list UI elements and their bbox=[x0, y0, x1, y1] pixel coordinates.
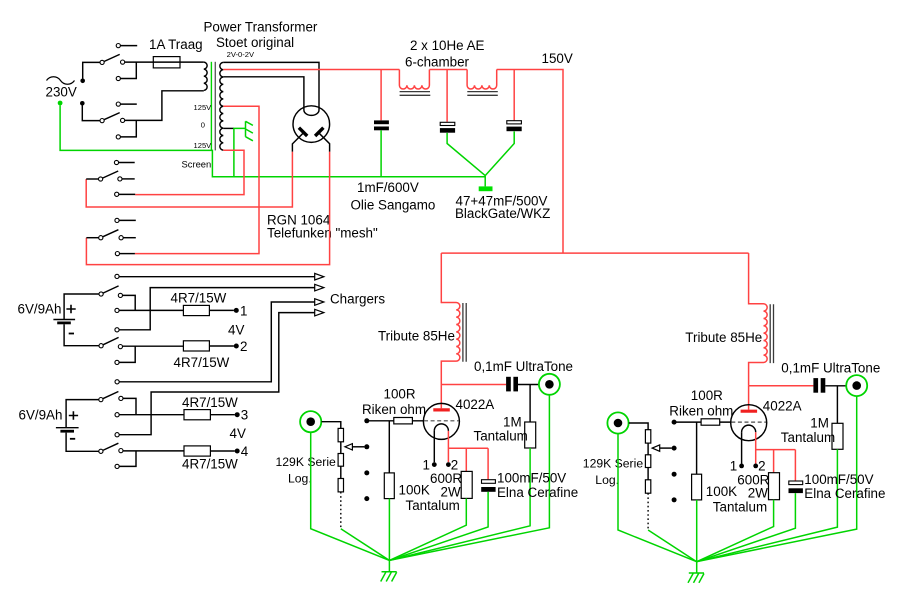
battery BT1 plus sign bbox=[66, 305, 75, 314]
choke L1 (2 x 10He AE) winding bbox=[399, 70, 429, 90]
wire: R2 to output dot 2 bbox=[209, 345, 234, 347]
capacitor C4 100mF/50V plates (electrolytic) bbox=[482, 480, 496, 484]
switch S3 throw top circle bbox=[114, 160, 118, 164]
switch S6a throw lower circle bbox=[115, 413, 119, 417]
wire: 150V rail split to both channels (red) bbox=[441, 252, 748, 254]
wire: green from C2a to star point bbox=[447, 133, 485, 176]
wire: black drop to grid-leak resistor 1M bbox=[529, 385, 531, 423]
wire: green star point drop bbox=[484, 176, 486, 187]
charger arrow 1 bbox=[315, 273, 324, 280]
wire: S3 mid throw stub bbox=[122, 178, 135, 180]
capacitor C2a 47mF plates (electrolytic) bbox=[440, 122, 455, 125]
svg-text:100mF/50V: 100mF/50V bbox=[497, 471, 566, 486]
svg-text:4R7/15W: 4R7/15W bbox=[174, 355, 230, 370]
wire: ladder segment bbox=[340, 466, 342, 478]
svg-text:Log.: Log. bbox=[288, 472, 312, 486]
wire: green from 0V tap to shield symbol and down to ground bus bbox=[234, 128, 246, 176]
input jack J1 (green ring) bbox=[300, 411, 321, 432]
wire: ladder dotted continuation bbox=[340, 492, 342, 529]
output jack J2 center pin bbox=[545, 380, 554, 389]
wire: red filament supply branch to 600R and 100mF bbox=[448, 448, 488, 479]
wire: drop from grid node to 100K bbox=[388, 421, 390, 473]
switch S4 pole circle bbox=[99, 236, 103, 240]
svg-text:Tribute 85He: Tribute 85He bbox=[378, 329, 455, 344]
svg-text:0,1mF UltraTone: 0,1mF UltraTone bbox=[474, 359, 573, 374]
svg-text:6-chamber: 6-chamber bbox=[405, 55, 470, 70]
switch S6a pole circle bbox=[99, 398, 103, 402]
switch S3 throw bottom circle bbox=[115, 192, 119, 196]
svg-text:3: 3 bbox=[241, 408, 248, 423]
resistor R7 100R Riken ohm bbox=[394, 418, 413, 424]
wire: green from 100mF to ground star bbox=[389, 492, 488, 561]
capacitor C2b 47mF plates (electrolytic) bbox=[507, 121, 522, 124]
wire: filament pin 1 lead (black) bbox=[433, 431, 435, 462]
svg-text:1: 1 bbox=[423, 457, 430, 472]
node: AC line terminal (dot) bbox=[80, 79, 85, 84]
svg-text:4R7/15W: 4R7/15W bbox=[171, 291, 227, 306]
battery BT2 positive wire to S6a pole bbox=[66, 400, 99, 428]
wire: green from input jack to ground star bbox=[311, 433, 390, 561]
switch S2 lever bbox=[104, 113, 120, 120]
wire: red 125V upper tap down to S4 bottom throw bbox=[135, 106, 259, 253]
chassis ground bar (green) bbox=[479, 186, 493, 191]
rectifier U1 right anode lead bbox=[319, 133, 330, 152]
wire: S5b throw to R2 bbox=[119, 346, 183, 362]
switch S3 lever bbox=[103, 171, 119, 178]
switch S3 pole circle bbox=[99, 177, 103, 181]
triode V2 4022A envelope bbox=[423, 403, 459, 439]
switch S5a throw mid circle bbox=[118, 293, 122, 297]
svg-text:4: 4 bbox=[241, 444, 249, 459]
svg-text:150V: 150V bbox=[542, 51, 573, 66]
battery BT1 positive wire to S5a pole bbox=[64, 294, 99, 319]
battery BT2 short plate bbox=[60, 430, 74, 433]
triode V2 grid dashed line bbox=[424, 420, 459, 422]
wire: S2 bottom throw stub and riser bbox=[121, 120, 137, 136]
svg-text:Chargers: Chargers bbox=[330, 292, 385, 307]
switch S6b pole circle bbox=[99, 449, 103, 453]
charger arrow 4 bbox=[315, 309, 324, 316]
wire: S6a mid throw to R3 junction bbox=[119, 398, 184, 414]
switch S6b lever bbox=[103, 443, 119, 450]
node: output terminal 2 (dot) bbox=[234, 344, 239, 349]
switch S2 throw top circle bbox=[116, 102, 120, 106]
svg-text:2V-0-2V: 2V-0-2V bbox=[227, 50, 255, 59]
wire: S2 top throw stub bbox=[121, 103, 137, 105]
svg-text:2: 2 bbox=[240, 339, 247, 354]
charger arrow 2 bbox=[315, 284, 324, 291]
svg-text:Tantalum: Tantalum bbox=[474, 429, 528, 444]
switch S5b throw lower circle bbox=[115, 360, 119, 364]
resistor R8 100K Tantalum bbox=[384, 473, 394, 499]
svg-text:Elna Cerafine: Elna Cerafine bbox=[497, 485, 578, 500]
switch S6a throw top circle (charger line 3) bbox=[115, 380, 119, 384]
resistor R1 4R7/15W bbox=[183, 305, 209, 315]
svg-text:6V/9Ah: 6V/9Ah bbox=[19, 408, 63, 423]
attenuator P1 129K Serie Log ladder resistor a bbox=[338, 428, 343, 441]
AC source symbol ~ bbox=[47, 77, 75, 85]
switch S5a throw bottom circle (charger line 2) bbox=[115, 328, 119, 332]
wire: green from ladder bottom to ground star bbox=[341, 529, 390, 561]
node: output terminal 4 (dot) bbox=[235, 449, 240, 454]
switch S1 throw mid circle bbox=[121, 60, 125, 64]
wire: S6a bottom throw riser to charger line 4 bbox=[119, 313, 314, 435]
wire: wiper to selector contact bbox=[352, 446, 364, 448]
wire: 2V heater tap top (black) to rectifier filament right lead bbox=[223, 62, 319, 110]
wire: S3 pole stub (black) bbox=[86, 178, 98, 180]
wire: S1 mid throw to fuse to transformer primary top bbox=[125, 61, 204, 63]
rectifier tube U1 RGN 1064 envelope bbox=[293, 106, 330, 143]
switch S4 throw top circle bbox=[115, 218, 119, 222]
wire: secondary 0V tap stub (black) bbox=[223, 127, 234, 129]
wire: green from 600R to ground star bbox=[389, 498, 466, 560]
wire: S4 mid throw stub bbox=[123, 237, 136, 239]
wire: green from output jack to ground star bbox=[389, 395, 549, 561]
wire: S5a mid throw to R1 junction bbox=[119, 295, 183, 310]
switch S5a lever bbox=[103, 286, 119, 293]
charger arrow 3 bbox=[315, 299, 324, 306]
switch S5b lever bbox=[103, 337, 119, 344]
wire: S6b throw to R4 bbox=[119, 451, 184, 467]
switch S4 throw bottom circle bbox=[115, 252, 119, 256]
svg-text:Olie Sangamo: Olie Sangamo bbox=[351, 198, 436, 213]
svg-text:4022A: 4022A bbox=[456, 397, 495, 412]
attenuator P1 ladder resistor c bbox=[338, 479, 343, 492]
choke L1 core lines bbox=[400, 92, 431, 96]
wire: S1 top throw stub bbox=[121, 45, 138, 47]
wire: R3 to output dot 3 bbox=[210, 414, 234, 416]
svg-text:4V: 4V bbox=[230, 426, 246, 441]
svg-text:Power Transformer: Power Transformer bbox=[204, 20, 318, 35]
svg-text:4R7/15W: 4R7/15W bbox=[182, 395, 238, 410]
switch S1 lever bbox=[104, 54, 120, 61]
choke L3 core lines bbox=[463, 303, 466, 362]
switch S4 throw mid circle bbox=[119, 236, 123, 240]
wire: filament pin 2 lead (red) bbox=[447, 431, 449, 462]
wire: R1 to output dot 1 bbox=[209, 309, 234, 311]
switch S6b throw circle bbox=[119, 449, 123, 453]
switch S2 pole circle bbox=[100, 119, 104, 123]
wire: S4 top throw stub bbox=[119, 219, 136, 221]
svg-text:4R7/15W: 4R7/15W bbox=[182, 457, 238, 472]
wire: red 125V lower tap down to S3 bottom throw bbox=[135, 150, 244, 194]
output jack J2 (green ring) bbox=[539, 374, 560, 395]
svg-text:2 x 10He AE: 2 x 10He AE bbox=[410, 38, 485, 53]
switch S2 throw mid circle bbox=[121, 118, 125, 122]
wire: S2 mid throw to transformer primary bottom bbox=[125, 91, 204, 121]
node: earth terminal (green dot) bbox=[58, 101, 63, 106]
wire: red left anode down to S3 pole line bbox=[86, 152, 292, 207]
wire: coupling cap to output jack bbox=[518, 384, 539, 386]
battery BT1 minus sign bbox=[69, 333, 74, 335]
node: selector contact dot 3 bbox=[364, 470, 369, 475]
wire: green from 100K down to ground symbol bbox=[388, 499, 390, 572]
wire: red leg down to left channel choke bbox=[440, 253, 442, 303]
wire: S3 top throw stub bbox=[119, 162, 135, 164]
power transformer T1 secondary winding bbox=[220, 62, 223, 150]
wire: AC line dot up to switch S1 pole bbox=[83, 62, 100, 78]
wire: green from 1M to ground star bbox=[389, 448, 530, 560]
wire: red right anode down to S4 pole line bbox=[86, 152, 329, 265]
triode V2 filament arc bbox=[434, 424, 448, 431]
node: pin 2 dot bbox=[446, 462, 451, 467]
switch S6b throw lower circle bbox=[115, 464, 119, 468]
switch S5b pole circle bbox=[99, 344, 103, 348]
wire: red drop from rail to capacitor C1 bbox=[380, 70, 382, 121]
battery BT2 long plate bbox=[56, 427, 79, 429]
switch S5a pole circle bbox=[99, 292, 103, 296]
svg-text:Riken ohm: Riken ohm bbox=[362, 402, 426, 417]
battery BT2 minus sign bbox=[70, 438, 75, 440]
switch S1 throw top circle bbox=[116, 44, 120, 48]
resistor R4 4R7/15W bbox=[184, 446, 210, 456]
wire: green from C1 to ground bus bbox=[380, 130, 382, 177]
choke L2 core lines bbox=[467, 92, 498, 96]
battery BT2 plus sign bbox=[69, 411, 78, 420]
wire: red anode feed down to tube plate bbox=[440, 385, 442, 409]
svg-text:100K: 100K bbox=[399, 483, 430, 498]
switch S6a lever bbox=[103, 392, 119, 399]
triode V2 plate bar (red) bbox=[433, 408, 450, 411]
switch S4 lever bbox=[103, 230, 119, 237]
svg-text:Stoet original: Stoet original bbox=[216, 35, 294, 50]
power transformer T1 primary winding bbox=[204, 62, 207, 90]
wire: S3 bottom throw stub (black) bbox=[119, 193, 135, 195]
svg-text:125V: 125V bbox=[194, 141, 213, 150]
rectifier U1 right anode bar bbox=[315, 128, 323, 136]
switch S6a throw bottom circle (charger line 4) bbox=[115, 433, 119, 437]
node: output terminal 3 (dot) bbox=[235, 412, 240, 417]
svg-text:4V: 4V bbox=[228, 323, 244, 338]
node: AC neutral terminal (dot) bbox=[80, 101, 85, 106]
ground symbol (green) bbox=[381, 572, 397, 582]
wire: red drop from rail to capacitor C2b bbox=[513, 70, 515, 121]
attenuator wiper arrow bbox=[345, 444, 353, 450]
wire: S5a bottom throw riser to charger line 2 bbox=[119, 288, 315, 330]
choke L3 Tribute 85He winding (red) bbox=[441, 303, 460, 385]
rectifier U1 left anode lead bbox=[292, 133, 303, 152]
svg-text:100R: 100R bbox=[384, 387, 416, 402]
wire: red anode node to coupling capacitor bbox=[441, 384, 506, 386]
input jack J1 center pin bbox=[306, 417, 315, 426]
wire: red drop from rail to capacitor C2a bbox=[446, 70, 448, 122]
wire: S4 pole stub (black) bbox=[86, 237, 98, 239]
coupling capacitor C3 0,1mF UltraTone plates bbox=[506, 377, 511, 392]
node: selector contact dot 1 bbox=[364, 418, 369, 423]
wire: red leg down to right channel choke bbox=[748, 253, 750, 304]
wire: R4 to output dot 4 bbox=[210, 450, 234, 452]
battery BT2 negative wire to S6b pole bbox=[66, 433, 99, 452]
battery BT1 short plate bbox=[57, 321, 71, 324]
node: pin 1 dot bbox=[432, 462, 437, 467]
rectifier U1 left anode bar bbox=[299, 128, 307, 136]
resistor R3 4R7/15W bbox=[184, 410, 210, 420]
wire: grid wire from selector dot through 100R to tube bbox=[367, 420, 424, 422]
resistor R2 4R7/15W bbox=[183, 341, 209, 351]
svg-text:1: 1 bbox=[240, 304, 247, 319]
svg-text:230V: 230V bbox=[46, 85, 77, 100]
wire: heater center tap B+ rail (red) to 150V corner bbox=[223, 70, 563, 254]
resistor R6 1M Tantalum bbox=[525, 422, 536, 448]
svg-text:Telefunken "mesh": Telefunken "mesh" bbox=[267, 226, 378, 241]
switch S5a throw lower circle bbox=[115, 308, 119, 312]
power transformer T1 core (lamination line) bbox=[214, 62, 216, 151]
switch S2 throw bottom circle bbox=[116, 135, 120, 139]
svg-text:129K Serie: 129K Serie bbox=[276, 455, 337, 469]
resistor R5 600R 2W bbox=[461, 471, 472, 498]
rectifier U1 filament arc bbox=[304, 110, 319, 115]
switch S6a throw mid circle bbox=[119, 396, 123, 400]
switch S3 throw mid circle bbox=[118, 177, 122, 181]
wire: jack to attenuator ladder bbox=[322, 422, 341, 429]
switch S1 pole circle bbox=[100, 60, 104, 64]
battery BT1 negative wire to S5b pole bbox=[64, 324, 99, 345]
power transformer T1 core (grounded shield line green) bbox=[210, 62, 212, 151]
node: selector contact dot 4 bbox=[364, 496, 369, 501]
attenuator P1 ladder resistor b bbox=[338, 454, 343, 467]
fuse F1 1A Traag bbox=[153, 57, 180, 68]
switch S5a throw top circle (charger line 1) bbox=[115, 274, 119, 278]
svg-text:1M: 1M bbox=[503, 414, 522, 429]
wire: 2V heater tap lower (black) to rectifier filament left lead bbox=[223, 77, 304, 110]
svg-text:0: 0 bbox=[201, 121, 205, 130]
choke L2 (2 x 10He AE) winding bbox=[467, 70, 497, 90]
wire: charger line 1 bbox=[119, 276, 315, 278]
shield screen symbol (green) bbox=[246, 121, 253, 141]
svg-text:1mF/600V: 1mF/600V bbox=[357, 180, 419, 195]
node: selector contact dot 2 bbox=[364, 444, 369, 449]
svg-text:125V: 125V bbox=[194, 103, 213, 112]
switch S1 throw bottom circle bbox=[116, 76, 120, 80]
svg-text:Tantalum: Tantalum bbox=[406, 498, 460, 513]
capacitor C1 1mF/600V plates bbox=[374, 120, 389, 124]
svg-text:Screen: Screen bbox=[182, 159, 212, 170]
svg-text:6V/9Ah: 6V/9Ah bbox=[18, 302, 62, 317]
wire: S1 bottom throw stub and riser to fuse line bbox=[121, 62, 137, 78]
node: output terminal 1 (dot) bbox=[234, 308, 239, 313]
battery BT1 long plate bbox=[53, 319, 75, 321]
wire: charger line 3 riser and arrow line bbox=[119, 302, 314, 382]
wire: ladder segment bbox=[340, 442, 342, 454]
switch S5b throw circle bbox=[118, 345, 122, 349]
wire: green earth from dot down and right to transformer frame then ground bus bbox=[60, 105, 485, 177]
wire: S4 bottom throw stub (black) bbox=[120, 253, 135, 255]
wire: AC neutral dot down to switch S2 pole bbox=[82, 106, 100, 121]
svg-text:BlackGate/WKZ: BlackGate/WKZ bbox=[455, 206, 550, 221]
svg-text:1A Traag: 1A Traag bbox=[149, 37, 203, 52]
wire: green from C2b to star point bbox=[485, 131, 514, 175]
